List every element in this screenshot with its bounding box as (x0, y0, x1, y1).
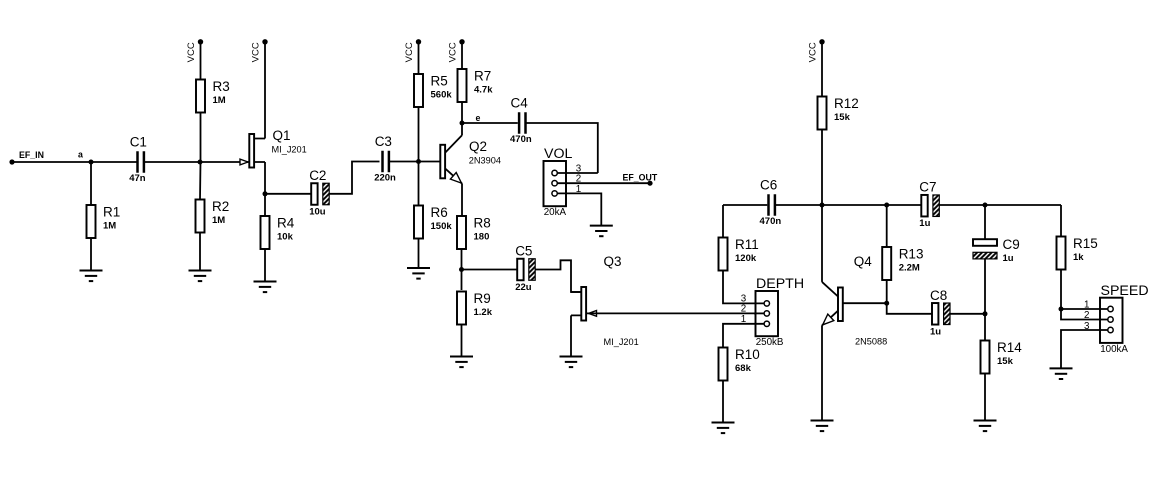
junction R15/SPEED (1059, 307, 1064, 312)
svg-text:3: 3 (741, 293, 747, 304)
junction base/R13/C8 (884, 301, 889, 306)
resistor R3 (196, 79, 230, 113)
wire R11 corner to C6 (723, 204, 767, 206)
resistor R11 (719, 237, 759, 271)
wire DEPTH pin 3 to R11 (723, 270, 767, 303)
pin number 2 DEPTH (741, 304, 746, 315)
resistor R4 (261, 216, 295, 250)
resistor R5 (414, 74, 452, 108)
svg-text:1: 1 (1084, 299, 1089, 310)
svg-text:EF_OUT: EF_OUT (623, 173, 658, 183)
capacitor C9 (973, 237, 1020, 264)
capacitor C3 (374, 134, 396, 184)
wire VOL pin 2 to EF_OUT (555, 182, 650, 184)
wire R2 to ground (199, 233, 201, 271)
wire SPEED pin 2 (1061, 309, 1111, 320)
connector VOL (544, 146, 573, 218)
junction C7/C9 (983, 203, 988, 208)
svg-text:C2: C2 (309, 168, 326, 183)
wire node a to R1 (90, 162, 92, 205)
transistor Q3 (571, 254, 639, 347)
wire R6 to ground (418, 239, 420, 269)
junction node a (89, 160, 94, 165)
VCC supply Q1 (251, 39, 268, 62)
svg-text:R1: R1 (103, 205, 120, 220)
capacitor C6 (760, 178, 782, 228)
wire to C2 (265, 193, 311, 195)
resistor R1 (87, 205, 121, 239)
capacitor C7 (919, 180, 939, 230)
resistor R14 (981, 340, 1023, 374)
svg-text:47n: 47n (129, 173, 146, 184)
pin number 1 SPEED (1084, 299, 1089, 310)
svg-text:VOL: VOL (544, 146, 572, 162)
svg-text:180: 180 (474, 232, 490, 243)
capacitor C1 (129, 135, 147, 185)
svg-text:EF_IN: EF_IN (19, 150, 44, 160)
resistor R12 (818, 96, 859, 130)
wire R1 to ground (90, 238, 92, 271)
capacitor C5 (515, 244, 535, 294)
svg-text:SPEED: SPEED (1101, 283, 1149, 299)
VCC supply R12 (808, 39, 825, 62)
svg-text:1u: 1u (930, 326, 941, 337)
VCC supply R5 (404, 39, 421, 62)
wire R4 to ground (264, 249, 266, 282)
junction R8/R9/C5 (459, 267, 464, 272)
junction C8/C9/R14 (983, 311, 988, 316)
wire VCC to R12 (821, 42, 823, 97)
wire Q2 emitter to R8 (461, 184, 463, 216)
wire C7 to R15 corner (940, 204, 1062, 206)
node a label (78, 150, 83, 160)
svg-text:220n: 220n (374, 173, 396, 184)
svg-text:Q1: Q1 (273, 128, 291, 143)
VCC supply R3 (186, 39, 203, 62)
pin number 2 VOL (576, 174, 581, 185)
wire base junction to C8 (887, 303, 932, 314)
wire R12 to junction (821, 130, 823, 206)
junction Q1 source/C2/R4 (263, 191, 268, 196)
junction C1/R2/R3 (198, 160, 203, 165)
svg-text:560k: 560k (431, 90, 453, 101)
wire junction to R13 (886, 205, 888, 247)
junction R5/R6/base (416, 159, 421, 164)
resistor R6 (414, 205, 452, 239)
svg-text:R7: R7 (474, 69, 491, 84)
wire DEPTH pin 2 stub (754, 312, 767, 314)
connector DEPTH (756, 276, 805, 348)
wire C1 to Q1 gate (145, 161, 250, 163)
svg-text:2.2M: 2.2M (899, 263, 920, 274)
svg-text:120k: 120k (735, 253, 757, 264)
wire C2 to C3 (329, 162, 379, 194)
ground R6 (407, 268, 430, 279)
wire Q3 source to ground (570, 315, 572, 356)
svg-text:R9: R9 (474, 291, 491, 306)
net label EF_OUT (623, 173, 658, 183)
ground R2 (189, 271, 212, 282)
svg-text:Q2: Q2 (469, 139, 487, 154)
svg-text:C7: C7 (919, 180, 936, 195)
svg-text:3: 3 (1084, 321, 1090, 332)
svg-text:2N5088: 2N5088 (855, 337, 887, 347)
ground R1 (80, 271, 103, 282)
pin number 1 DEPTH (741, 314, 746, 325)
svg-text:C4: C4 (511, 96, 529, 111)
svg-text:R10: R10 (735, 347, 760, 362)
pin number 3 SPEED (1084, 321, 1090, 332)
svg-text:R15: R15 (1073, 236, 1098, 251)
pin number 1 VOL (576, 184, 581, 195)
svg-text:C3: C3 (375, 134, 392, 149)
ground R4 (254, 282, 277, 293)
svg-text:150k: 150k (431, 221, 453, 232)
svg-text:R11: R11 (735, 237, 759, 252)
svg-text:1: 1 (741, 314, 746, 325)
svg-text:2: 2 (1084, 310, 1089, 321)
wire Q3 gate to DEPTH pin 2 (586, 312, 767, 314)
wire C9 to C8 junction (984, 259, 986, 314)
svg-text:R13: R13 (899, 247, 924, 262)
svg-text:VCC: VCC (251, 42, 262, 62)
svg-text:VCC: VCC (448, 42, 459, 62)
resistor R7 (458, 69, 494, 103)
svg-text:Q3: Q3 (604, 254, 622, 269)
ground Q4 (811, 421, 834, 432)
svg-text:a: a (78, 150, 83, 160)
svg-text:C5: C5 (515, 244, 532, 259)
transistor Q4 (822, 254, 887, 347)
junction node e (460, 121, 465, 126)
wire junction to R14 (984, 314, 986, 341)
pin number 3 VOL (576, 164, 582, 175)
wire VCC to Q1 drain (264, 42, 266, 139)
connector VOL pin circles (552, 170, 557, 196)
VCC supply R7 (448, 39, 465, 62)
svg-text:DEPTH: DEPTH (756, 276, 804, 292)
ground R10 (712, 423, 735, 434)
svg-text:1u: 1u (919, 218, 930, 229)
svg-text:470n: 470n (510, 134, 532, 145)
svg-text:MI_J201: MI_J201 (272, 145, 307, 155)
svg-text:VCC: VCC (404, 42, 415, 62)
wire Q1 source down (264, 162, 266, 216)
svg-text:1M: 1M (103, 221, 116, 232)
svg-text:VCC: VCC (186, 42, 197, 62)
node e label (476, 113, 481, 123)
capacitor C4 (510, 96, 532, 146)
svg-text:470n: 470n (760, 216, 782, 227)
svg-text:MI_J201: MI_J201 (604, 337, 639, 347)
terminal EF_OUT (647, 181, 652, 186)
pin number 3 DEPTH (741, 293, 747, 304)
svg-text:1.2k: 1.2k (474, 307, 493, 318)
wire VOL pin 1 to ground (555, 193, 602, 225)
resistor R9 (457, 291, 493, 325)
ground VOL pin1 (590, 226, 613, 237)
wire Q4 base to R13 (843, 302, 887, 304)
svg-text:4.7k: 4.7k (474, 85, 493, 96)
wire R10 to ground (722, 381, 724, 423)
junction R13 top (884, 203, 889, 208)
svg-text:1M: 1M (213, 95, 226, 106)
svg-text:Q4: Q4 (854, 254, 873, 269)
capacitor C8 (930, 288, 950, 338)
wire EF_IN to C1 (12, 161, 137, 163)
wire junction to R9 (461, 270, 463, 291)
transistor Q2 (440, 135, 501, 183)
wire C4 to VOL pin3 (526, 123, 598, 173)
wire R7 to Q2 collector (461, 102, 463, 135)
svg-text:C9: C9 (1003, 237, 1020, 252)
svg-text:R12: R12 (834, 96, 859, 111)
wire DEPTH pin 1 to R10 (723, 324, 767, 348)
svg-text:R3: R3 (213, 79, 230, 94)
svg-text:1k: 1k (1073, 252, 1084, 263)
wire SPEED pin 1 (1061, 308, 1111, 310)
resistor R2 (196, 199, 230, 233)
wire R8 to junction (461, 249, 463, 270)
svg-text:C8: C8 (930, 288, 947, 303)
wire node e to C4 (462, 122, 518, 124)
wire R13 to base junction (886, 280, 888, 303)
svg-text:e: e (476, 113, 481, 123)
wire R9 to ground (461, 324, 463, 357)
junction R12/Q4 collector (820, 203, 825, 208)
wire R15 to junction (1060, 270, 1062, 310)
ground R9 (450, 357, 473, 368)
svg-text:100kA: 100kA (1100, 344, 1128, 355)
wire VCC to R7 (461, 42, 463, 69)
svg-text:22u: 22u (515, 282, 532, 293)
wire C3 to Q2 base (390, 161, 441, 163)
pin number 2 SPEED (1084, 310, 1089, 321)
svg-text:20kA: 20kA (544, 207, 567, 218)
svg-text:C1: C1 (130, 135, 147, 150)
ground Q3 (560, 357, 583, 368)
resistor R15 (1057, 236, 1098, 270)
wire junction to C9 (984, 205, 986, 239)
wire VCC to R5 (418, 42, 420, 74)
net label EF_IN (19, 150, 44, 160)
resistor R10 (719, 347, 760, 381)
svg-text:15k: 15k (997, 356, 1014, 367)
wire C8 to junction (950, 313, 985, 315)
connector DEPTH pin circles (764, 301, 769, 327)
svg-text:1M: 1M (212, 215, 225, 226)
resistor R8 (457, 216, 491, 250)
svg-text:68k: 68k (735, 363, 752, 374)
wire Q4 emitter to ground (821, 325, 823, 420)
svg-text:C6: C6 (760, 178, 777, 193)
svg-text:15k: 15k (834, 112, 851, 123)
resistor R13 (882, 247, 923, 281)
wire rail to R15 (1060, 205, 1062, 237)
svg-text:1: 1 (576, 184, 581, 195)
transistor Q1 (240, 128, 307, 168)
wire SPEED pin 3 to ground (1061, 330, 1111, 368)
terminal EF_IN (9, 159, 14, 164)
svg-text:250kB: 250kB (756, 337, 784, 348)
svg-text:R8: R8 (474, 216, 491, 231)
connector SPEED pin circles (1108, 306, 1113, 332)
svg-text:R2: R2 (212, 199, 229, 214)
svg-text:R4: R4 (277, 216, 295, 231)
wire junction to C5 (462, 269, 518, 271)
wire VOL pin 3 (555, 172, 598, 174)
wire junction to Q4 collector (821, 205, 823, 282)
capacitor C2 (309, 168, 329, 218)
wire R3 to R2 (199, 113, 202, 200)
wire C5 to Q3 drain (535, 260, 581, 292)
connector SPEED (1100, 283, 1149, 355)
svg-text:10u: 10u (309, 207, 326, 218)
svg-text:10k: 10k (277, 232, 294, 243)
svg-text:R5: R5 (431, 74, 448, 89)
wire R5 to R6 (418, 107, 420, 206)
wire C6 to C7 (776, 204, 922, 206)
svg-text:VCC: VCC (808, 42, 819, 62)
ground R14 (974, 421, 997, 432)
svg-text:1u: 1u (1003, 253, 1014, 264)
svg-text:R6: R6 (431, 205, 448, 220)
ground SPEED (1050, 368, 1073, 379)
svg-text:2N3904: 2N3904 (469, 156, 501, 166)
svg-text:R14: R14 (997, 340, 1022, 355)
wire R14 to ground (984, 374, 986, 421)
wire C6 branch to R11 (722, 205, 724, 238)
wire VCC to R3 (200, 42, 202, 80)
